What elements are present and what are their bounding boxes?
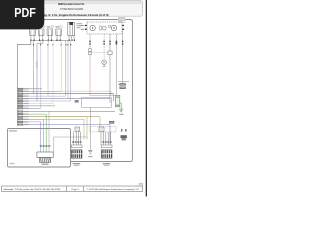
svg-text:PDF: PDF <box>14 5 36 20</box>
svg-text:Fig. 9: 1.5L, Engine Performan: Fig. 9: 1.5L, Engine Performance Circuit… <box>43 13 109 17</box>
svg-text:sábado, 18 de julio de 2021 06: sábado, 18 de julio de 2021 06:50:50 PM <box>3 189 60 191</box>
svg-text:1998 Hyundai Accent GL: 1998 Hyundai Accent GL <box>58 2 85 6</box>
svg-text:© 2011 Mitchell Repair Informa: © 2011 Mitchell Repair Information Compa… <box>87 188 140 191</box>
svg-text:Page 1: Page 1 <box>72 189 80 191</box>
svg-text:SYSTEM WIRING DIAGRAMS: SYSTEM WIRING DIAGRAMS <box>60 8 83 11</box>
